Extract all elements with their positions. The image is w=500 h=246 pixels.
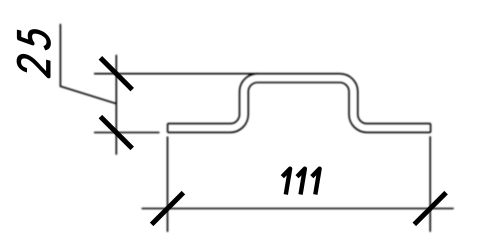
right end cap bbox=[430, 124, 432, 133]
text 111 digit 1b bbox=[297, 169, 305, 195]
text 111 digit 1c bbox=[312, 169, 320, 195]
text 25 digit 2 (rotated) bbox=[19, 53, 49, 76]
dim25 leader bbox=[60, 24, 116, 104]
text 111 digit 1a bbox=[282, 169, 290, 195]
dim25 top tick bbox=[100, 58, 132, 90]
dim25 bottom tick bbox=[100, 117, 132, 149]
dim25 dimension line bbox=[115, 55, 117, 155]
dim111 right extension line bbox=[429, 136, 431, 232]
hat profile outer surface bbox=[168, 74, 431, 124]
text 25 digit 5 (rotated) bbox=[19, 27, 49, 49]
dim111 left tick bbox=[152, 193, 184, 225]
dim111 right tick bbox=[414, 193, 446, 225]
dim25 top extension line bbox=[94, 73, 258, 75]
hat profile inner surface bbox=[168, 83, 431, 133]
dim111 left extension line bbox=[167, 137, 169, 232]
left end cap bbox=[167, 124, 169, 133]
dim25 bottom extension line bbox=[94, 132, 160, 134]
dim111 dimension line bbox=[142, 208, 454, 210]
